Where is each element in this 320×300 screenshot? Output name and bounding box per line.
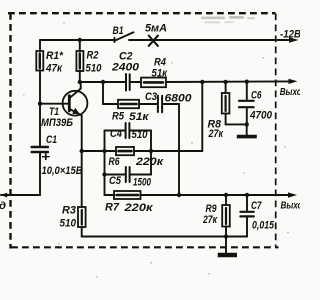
wire C3 right then down xyxy=(162,104,179,195)
resistor R6 xyxy=(116,147,134,155)
capacitor C3 xyxy=(158,96,162,113)
transistor T1 (MP39B, PNP) xyxy=(63,82,88,207)
wire input xyxy=(1,194,40,196)
node: junction top rail / R2 xyxy=(78,38,82,42)
svg-text:R1*: R1* xyxy=(46,50,64,62)
resistor R1 xyxy=(36,40,43,104)
scan speckles xyxy=(23,22,289,277)
node: emitter rail left xyxy=(80,149,84,153)
svg-text:R2: R2 xyxy=(87,50,100,62)
arrow -12V terminal xyxy=(289,37,299,42)
node: C7 top xyxy=(245,193,249,197)
arrow output 1 xyxy=(289,79,298,84)
capacitor C4 xyxy=(126,123,130,138)
resistor R5 xyxy=(118,100,139,108)
wire R7 output row xyxy=(105,194,115,196)
resistor R2 xyxy=(76,40,83,82)
node B xyxy=(101,80,105,84)
wire emitter rail y151 xyxy=(82,150,203,152)
svg-text:10,0×15В: 10,0×15В xyxy=(42,165,83,177)
svg-text:220к: 220к xyxy=(123,202,154,214)
svg-text:Выход: Выход xyxy=(281,200,301,211)
svg-text:С6: С6 xyxy=(251,90,262,102)
resistor R3 xyxy=(78,207,86,237)
wire left rail of twin-T block xyxy=(104,131,106,196)
svg-text:R7: R7 xyxy=(105,202,120,214)
capacitor C7 xyxy=(240,195,253,237)
wire R4 to output row xyxy=(166,80,292,83)
wire: top rail middle segment xyxy=(129,39,291,41)
wire: -12V top rail left segment xyxy=(40,39,115,41)
resistor R4 xyxy=(141,78,166,88)
wire: base lead xyxy=(40,103,69,105)
wire C2 to R4 xyxy=(130,81,141,83)
svg-text:В1: В1 xyxy=(113,25,124,37)
wire right rail of twin-T block xyxy=(150,131,152,175)
node: right rail on y151 xyxy=(149,149,153,153)
svg-text:220к: 220к xyxy=(135,156,164,168)
svg-text:5мА: 5мА xyxy=(145,23,167,35)
svg-text:510: 510 xyxy=(132,129,149,141)
svg-text:С5: С5 xyxy=(109,175,122,187)
svg-text:R6: R6 xyxy=(109,156,121,168)
node: R9 top xyxy=(224,193,228,197)
switch B1 xyxy=(115,32,134,42)
capacitor C2 xyxy=(126,74,130,91)
svg-text:R5: R5 xyxy=(112,111,125,123)
arrow output 2 xyxy=(288,192,297,197)
node: base junction xyxy=(38,102,42,106)
svg-text:27к: 27к xyxy=(208,128,224,140)
node: left rail on y151 xyxy=(102,149,106,153)
resistor R8 xyxy=(222,82,247,124)
svg-text:С7: С7 xyxy=(251,200,262,212)
svg-text:4700: 4700 xyxy=(249,109,272,121)
node: left rail C5 row xyxy=(102,172,106,176)
svg-text:д: д xyxy=(0,200,7,212)
svg-text:С2: С2 xyxy=(119,51,133,63)
svg-text:51к: 51к xyxy=(152,68,169,80)
svg-text:51к: 51к xyxy=(129,111,150,123)
wire R5 to C3 xyxy=(139,103,158,105)
capacitor C6 xyxy=(239,82,254,125)
wire node B down to R5 row xyxy=(102,82,104,104)
scan smudges top xyxy=(201,16,255,23)
ground (bottom) xyxy=(218,237,237,256)
wire C4 row xyxy=(105,130,126,132)
dashed enclosure border xyxy=(8,13,279,249)
resistor R9 xyxy=(222,195,230,237)
ground (near C6) xyxy=(237,124,257,136)
svg-text:МП39Б: МП39Б xyxy=(41,117,73,129)
node C xyxy=(200,80,204,84)
current measuring point X (5 mA) xyxy=(149,36,158,46)
node: R8/C6/ground junction xyxy=(245,122,249,126)
capacitor C1 (electrolytic) xyxy=(32,104,48,195)
svg-text:R3: R3 xyxy=(62,205,77,217)
svg-text:Выход: Выход xyxy=(280,87,300,98)
svg-text:510: 510 xyxy=(86,63,103,75)
resistor R7 xyxy=(114,191,141,199)
svg-text:6800: 6800 xyxy=(165,93,193,105)
svg-text:-12В: -12В xyxy=(280,29,300,41)
wire node C down xyxy=(201,82,203,151)
svg-text:510: 510 xyxy=(60,218,77,230)
arrow input xyxy=(1,193,8,198)
svg-text:С1: С1 xyxy=(46,134,57,146)
svg-text:1500: 1500 xyxy=(133,176,152,188)
node D xyxy=(223,80,227,84)
node E xyxy=(245,80,249,84)
svg-text:2400: 2400 xyxy=(111,62,140,74)
svg-text:27к: 27к xyxy=(202,214,218,226)
wire bottom rail xyxy=(82,236,247,238)
node: C3 line on R7 row xyxy=(177,193,181,197)
node: ground stem on bottom rail xyxy=(224,234,228,238)
svg-text:0,015: 0,015 xyxy=(252,220,275,232)
wire: collector row y82 xyxy=(80,81,125,83)
node: collector node xyxy=(78,80,82,84)
capacitor C5 xyxy=(126,167,130,182)
svg-text:С3: С3 xyxy=(145,91,158,103)
svg-text:47к: 47к xyxy=(45,63,63,75)
wire C5 row xyxy=(105,174,126,176)
svg-text:С4: С4 xyxy=(110,128,123,140)
svg-text:+: + xyxy=(41,149,50,164)
